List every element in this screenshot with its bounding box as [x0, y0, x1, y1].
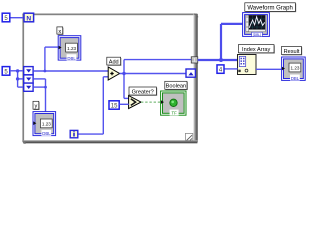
loop resize glyph — [185, 133, 192, 140]
svg-text:[DBL]: [DBL] — [253, 33, 262, 37]
wire x terminal branch — [44, 47, 59, 72]
label Boolean — [165, 81, 188, 90]
svg-text:Waveform Graph: Waveform Graph — [247, 6, 292, 12]
svg-text:Result: Result — [284, 49, 300, 55]
label x — [57, 27, 64, 35]
left shift register 1 — [24, 67, 33, 75]
label Waveform Graph — [245, 3, 296, 12]
greater function — [129, 96, 141, 109]
svg-text:15: 15 — [111, 104, 118, 110]
svg-text:x: x — [58, 29, 61, 35]
boolean wire greater to LED — [141, 101, 161, 103]
wire 4 to index array — [224, 68, 238, 70]
label Greater? — [129, 87, 157, 96]
label Result — [282, 46, 303, 55]
loop count terminal N — [24, 13, 34, 22]
right shift register — [186, 69, 195, 77]
svg-text:N: N — [26, 15, 31, 22]
iteration terminal i — [70, 130, 78, 137]
wire shift reg 2 to y — [33, 79, 45, 113]
indexing tunnel — [191, 57, 197, 63]
left shift register 3 — [24, 83, 33, 91]
svg-text:TF: TF — [171, 111, 177, 116]
numeric constant 15 — [109, 101, 119, 110]
numeric constant 5 (shift register init) — [2, 67, 10, 76]
svg-text:1.23: 1.23 — [291, 66, 300, 71]
wire shift reg 3 — [33, 86, 47, 89]
wire 15 to greater — [119, 103, 128, 105]
label Add — [107, 57, 122, 66]
wire index array to result — [256, 68, 282, 70]
svg-text:1.23: 1.23 — [42, 122, 51, 127]
add function — [108, 67, 119, 80]
waveform graph terminal — [243, 13, 270, 37]
wire shift reg 1 to Add — [33, 70, 108, 72]
svg-text:y: y — [35, 103, 38, 109]
label Index Array — [238, 45, 274, 54]
svg-text:Greater?: Greater? — [132, 89, 154, 95]
boolean indicator LED — [161, 91, 186, 116]
label y — [33, 101, 40, 110]
wire 5 to N — [10, 17, 24, 19]
wire Add output — [120, 60, 192, 99]
numeric constant 4 — [217, 65, 224, 74]
numeric indicator y — [33, 112, 56, 137]
index array function — [238, 55, 257, 75]
array wire tunnel to index array and graph — [198, 24, 243, 62]
for loop border — [22, 14, 197, 144]
numeric control x — [58, 36, 81, 61]
wire 5 to shift registers — [10, 69, 24, 87]
svg-text:Index Array: Index Array — [242, 47, 270, 53]
svg-text:Boolean: Boolean — [166, 83, 187, 89]
numeric constant 5 (loop count) — [2, 13, 10, 22]
numeric indicator Result — [282, 57, 306, 81]
left shift register 2 — [24, 75, 33, 83]
svg-text:DBL: DBL — [67, 56, 76, 61]
svg-text:Add: Add — [109, 59, 119, 65]
svg-text:DBL: DBL — [42, 131, 51, 136]
wire i to Add — [78, 77, 108, 134]
svg-text:DBL: DBL — [291, 76, 300, 81]
svg-text:1.23: 1.23 — [67, 46, 76, 51]
